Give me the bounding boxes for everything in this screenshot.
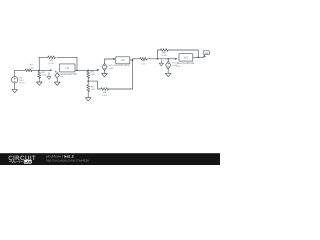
label diamond D3 xyxy=(172,62,179,68)
dependent source diamond D1 xyxy=(55,71,59,82)
label V1 xyxy=(19,77,25,85)
svg-text:2 kΩ: 2 kΩ xyxy=(42,74,47,77)
wire node G to output flag xyxy=(198,56,203,58)
resistor R1 xyxy=(25,69,32,72)
svg-text:5 kΩ: 5 kΩ xyxy=(102,94,107,97)
wire node F to diamond D3 node xyxy=(157,58,175,60)
label R5 xyxy=(91,86,96,92)
resistor R4 (vertical divider top) xyxy=(87,70,90,81)
ground under V1 xyxy=(12,83,18,93)
svg-text:R8: R8 xyxy=(162,51,166,54)
wire R8 to output node G xyxy=(168,50,199,57)
svg-text:R5: R5 xyxy=(91,86,95,89)
ground under diamond D2 xyxy=(102,71,108,77)
pin arrow into U1 stage xyxy=(50,69,52,71)
footer bar xyxy=(0,153,220,165)
wire node D to R6 xyxy=(88,81,101,89)
node F junction xyxy=(157,58,159,60)
label R8 xyxy=(161,51,167,57)
svg-text:A=V(IN1,IN2)*10k: A=V(IN1,IN2)*10k xyxy=(58,73,78,76)
wire U2 output to node E xyxy=(130,59,133,61)
wire feedback up from node A xyxy=(39,57,48,70)
resistor R3 (feedback) xyxy=(48,56,56,59)
svg-text:50 Hz: 50 Hz xyxy=(19,82,25,85)
label R2 xyxy=(42,71,47,77)
ground under diamond D1 xyxy=(54,82,60,85)
voltage source V1 xyxy=(12,70,18,83)
wire node E to R7 xyxy=(133,59,140,60)
node H junction on rail xyxy=(167,58,169,60)
svg-text:R1: R1 xyxy=(30,64,34,67)
svg-text:U3: U3 xyxy=(184,57,188,60)
label R1 xyxy=(29,64,34,70)
svg-text:out: out xyxy=(205,52,209,55)
resistor R2 (vertical to ground) xyxy=(38,70,41,82)
wire U3 output to node G xyxy=(193,56,199,58)
svg-text:5 A/V: 5 A/V xyxy=(109,67,115,70)
svg-text:R6: R6 xyxy=(103,91,107,94)
svg-text:5 kΩ: 5 kΩ xyxy=(91,73,96,76)
op-amp block U1 xyxy=(60,64,76,72)
svg-text:5k: 5k xyxy=(61,76,64,79)
logo resistor squiggle xyxy=(9,160,18,162)
logo LAB box xyxy=(24,160,32,164)
resistor R7 xyxy=(140,57,147,60)
label R7 xyxy=(141,60,146,66)
svg-text:R2: R2 xyxy=(42,71,46,74)
svg-text:5 kΩ: 5 kΩ xyxy=(91,88,96,91)
svg-text:10 kΩ: 10 kΩ xyxy=(48,62,54,65)
labels xyxy=(19,51,208,97)
wire R3 to output node B xyxy=(57,57,77,70)
ground under diamond D3 xyxy=(165,69,171,77)
node E junction xyxy=(132,59,134,61)
pin arrow into U3 xyxy=(175,58,177,60)
pin arrow into stage2 xyxy=(97,69,99,71)
wire node B to stage2 arrow xyxy=(88,69,97,71)
node C junction xyxy=(87,69,89,71)
node D junction xyxy=(87,80,89,82)
svg-text:U1: U1 xyxy=(65,67,69,70)
wire U1 output to node B xyxy=(75,69,88,71)
label R3 xyxy=(48,59,54,65)
svg-text:CIRCUIT: CIRCUIT xyxy=(8,155,36,162)
op-amp block U2 xyxy=(116,57,130,64)
wire V1 to R1 xyxy=(15,69,25,71)
ground under R2 xyxy=(36,82,42,85)
svg-text:1 kΩ: 1 kΩ xyxy=(29,66,34,69)
wire R7 to node F xyxy=(147,58,158,60)
svg-text:10 kΩ: 10 kΩ xyxy=(161,54,167,57)
wire R1 to node A xyxy=(32,69,40,71)
svg-text:U2: U2 xyxy=(121,59,125,62)
svg-text:R 50: R 50 xyxy=(176,65,181,68)
op-amp block U3 xyxy=(179,54,193,61)
dependent source diamond D3 xyxy=(166,59,171,69)
small reference ground stage3 xyxy=(159,60,163,66)
resistor R8 (feedback) xyxy=(160,49,168,52)
svg-text:R3: R3 xyxy=(50,59,54,62)
wire feedback up from node F xyxy=(157,50,160,59)
svg-text:http://circuitlab.com/c/7aa4k3: http://circuitlab.com/c/7aa4k3e xyxy=(46,159,89,163)
svg-text:1 kΩ: 1 kΩ xyxy=(141,62,146,65)
label diamond D2 xyxy=(109,64,116,70)
svg-text:R4: R4 xyxy=(91,70,95,73)
output flag OUT xyxy=(203,51,210,58)
pin arrow into U2 xyxy=(113,58,115,60)
svg-text:A=V(TL1)*5k: A=V(TL1)*5k xyxy=(115,64,130,67)
resistor R6 xyxy=(101,88,109,91)
svg-text:R7: R7 xyxy=(142,60,146,63)
node A junction xyxy=(38,69,40,71)
label R4 xyxy=(91,70,96,76)
dependent source diamond D2 xyxy=(102,63,107,70)
wire diamond D2 to U2 input xyxy=(105,59,114,63)
node G junction xyxy=(197,57,199,59)
node B junction xyxy=(76,69,78,71)
resistor R5 (vertical divider bottom) xyxy=(87,81,90,98)
logo capacitor mark xyxy=(17,160,22,162)
svg-text:A=V(TL2M)*10k: A=V(TL2M)*10k xyxy=(177,62,195,65)
svg-text:LAB: LAB xyxy=(25,160,32,164)
wire R6 to feedback vertical xyxy=(109,60,133,89)
ground under R5 xyxy=(85,98,91,101)
small reference ground stage1 xyxy=(47,73,51,80)
wire node A to input pin arrow xyxy=(39,69,50,71)
label R6 xyxy=(102,91,107,97)
